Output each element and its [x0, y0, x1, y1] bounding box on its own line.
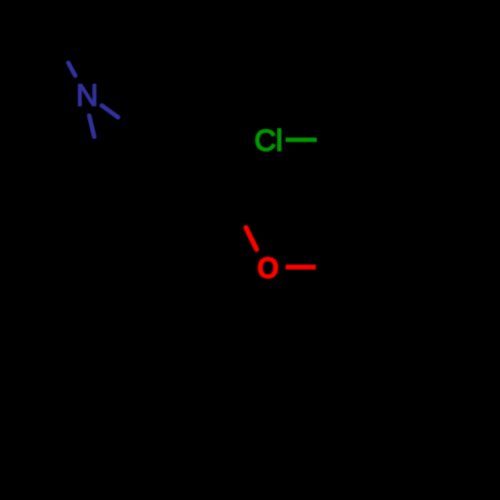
svg-text:N: N [76, 78, 98, 113]
svg-text:Cl: Cl [254, 125, 282, 158]
wire N-C right (blue half-bond) [102, 106, 118, 118]
wire N-CH3 (blue half-bond) [68, 63, 75, 76]
wire O-C right (red half-bond) [286, 265, 316, 269]
wire Cl-C (green half-bond) [286, 138, 317, 142]
wire O-C upleft (red half-bond) [246, 228, 257, 250]
svg-text:O: O [257, 252, 279, 285]
wire N-C down (blue half-bond) [89, 116, 94, 137]
